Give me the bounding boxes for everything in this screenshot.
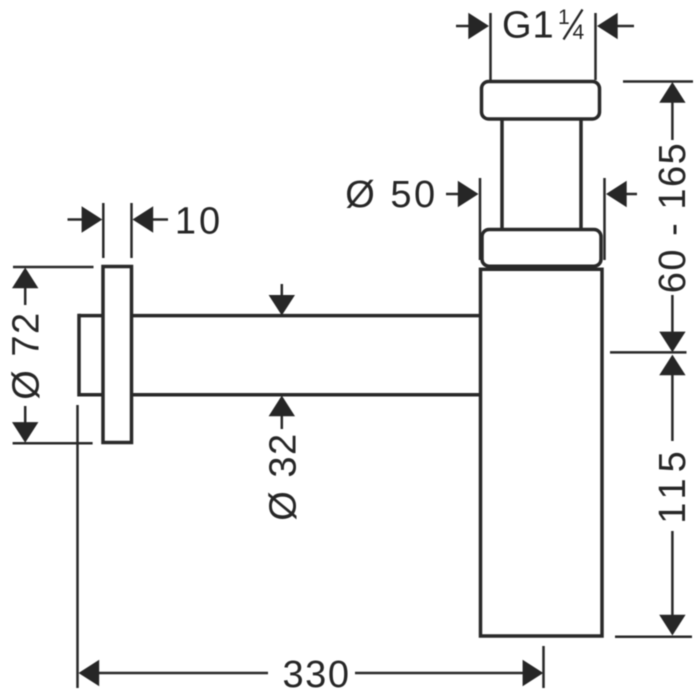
siphon body bbox=[481, 269, 603, 636]
10 dimension: left extension line bbox=[102, 203, 105, 258]
diameter 50 dimension: right extension line bbox=[603, 178, 606, 260]
10 left arrow bbox=[68, 218, 83, 221]
diameter 72 dimension: bottom tick bbox=[13, 442, 93, 445]
svg-text:60 - 165: 60 - 165 bbox=[652, 142, 694, 293]
115 bottom tick bbox=[615, 636, 692, 639]
wire: vertical pipe right edge bbox=[579, 117, 583, 232]
G 1 1/4 dimension: left extension line bbox=[489, 13, 492, 80]
diameter 32 down arrow bbox=[281, 284, 284, 297]
60-165 / 115 middle tick bbox=[610, 351, 687, 354]
diameter 50 left arrow bbox=[446, 193, 459, 196]
60-165 up arrow bbox=[659, 82, 685, 103]
115 up arrow bbox=[659, 355, 685, 376]
top flange bbox=[482, 82, 600, 120]
horizontal pipe top edge bbox=[79, 314, 481, 318]
10 dimension: right extension line bbox=[130, 203, 133, 258]
diameter 72 down arrow bbox=[24, 406, 27, 423]
330 dimension: right extension line bbox=[542, 646, 545, 688]
10 right arrow bbox=[153, 218, 168, 221]
diameter 32 up arrow bbox=[269, 396, 295, 417]
G 1 1/4 left arrow bbox=[456, 25, 470, 28]
330 dimension: left extension line bbox=[76, 405, 79, 688]
G 1 1/4 dimension: right extension line bbox=[594, 13, 597, 80]
330 right arrow bbox=[523, 660, 544, 686]
330 dimension line right segment bbox=[355, 672, 523, 675]
diameter 50 right arrow bbox=[626, 193, 637, 196]
svg-text:G1: G1 bbox=[502, 5, 555, 47]
diameter 72 up arrow bbox=[12, 268, 38, 289]
svg-text:10: 10 bbox=[175, 201, 223, 243]
svg-text:Ø 50: Ø 50 bbox=[345, 174, 437, 216]
lower flange bbox=[482, 230, 601, 267]
wire: vertical pipe left edge bbox=[500, 117, 504, 232]
60-165 down arrow bbox=[671, 295, 674, 332]
diameter 72 dimension: top tick bbox=[13, 266, 94, 269]
60-165 dimension: top tick bbox=[623, 80, 693, 83]
svg-text:115: 115 bbox=[652, 445, 694, 524]
svg-text:4: 4 bbox=[573, 21, 585, 44]
G 1 1/4 right arrow bbox=[616, 25, 634, 28]
115 down arrow bbox=[671, 531, 674, 615]
svg-text:330: 330 bbox=[283, 654, 351, 696]
330 left arrow bbox=[79, 660, 100, 686]
svg-text:1: 1 bbox=[558, 6, 570, 29]
pipe stub left end bbox=[77, 314, 81, 397]
horizontal pipe bottom edge bbox=[79, 393, 481, 397]
svg-text:Ø 32: Ø 32 bbox=[263, 432, 305, 520]
svg-text:Ø 72: Ø 72 bbox=[5, 311, 47, 399]
wall flange bbox=[103, 267, 132, 443]
diameter 50 dimension: left extension line bbox=[479, 178, 482, 260]
